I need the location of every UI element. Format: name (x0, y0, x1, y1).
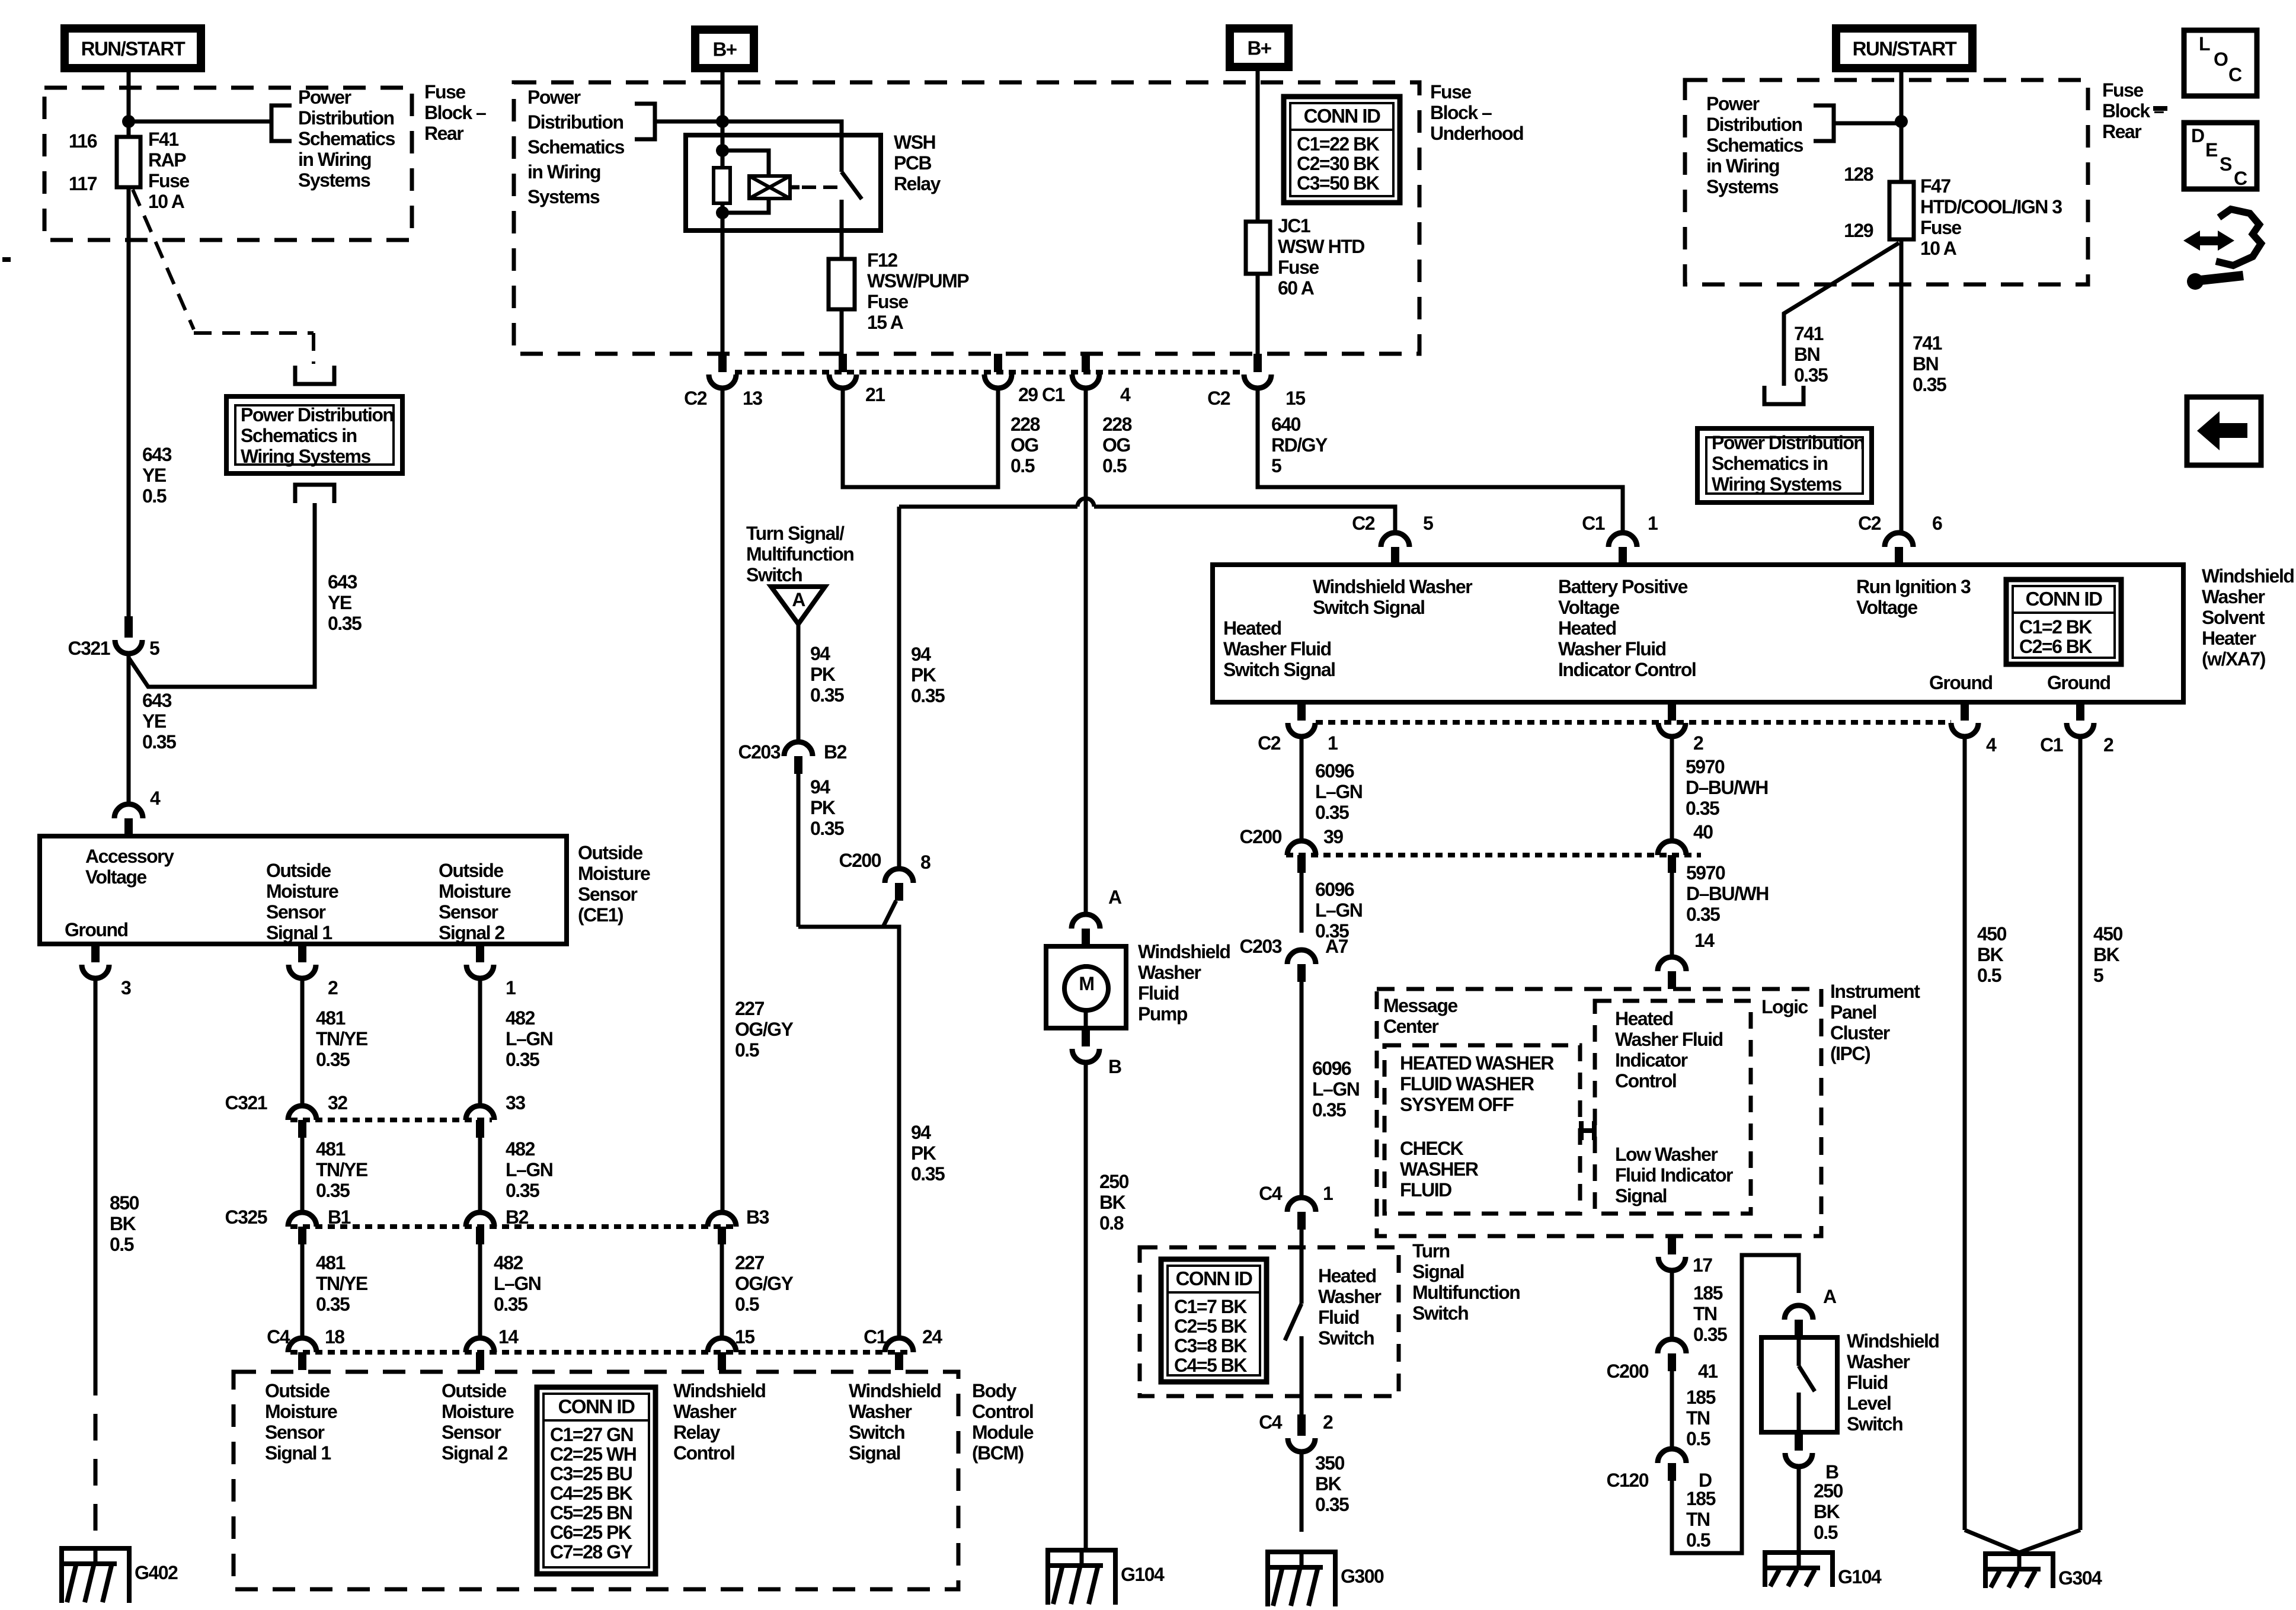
svg-text:HEATED WASHER: HEATED WASHER (1400, 1052, 1554, 1074)
wire 741 BN to heater C2-6 (1900, 239, 1904, 535)
connector pin 17 out of IPC (1668, 1236, 1676, 1254)
svg-text:WSW/PUMP: WSW/PUMP (867, 270, 969, 292)
svg-text:Signal 2: Signal 2 (439, 922, 504, 943)
svg-text:C7=28 GY: C7=28 GY (550, 1541, 632, 1563)
svg-text:Washer Fluid: Washer Fluid (1615, 1029, 1723, 1050)
fuse F41 RAP 10A (117, 137, 140, 187)
svg-text:13: 13 (743, 388, 762, 409)
box Windshield Washer Solvent Heater (1213, 565, 2183, 702)
svg-text:0.35: 0.35 (142, 731, 176, 753)
svg-text:RUN/START: RUN/START (1853, 38, 1957, 60)
svg-text:Logic: Logic (1761, 996, 1808, 1017)
svg-text:94: 94 (911, 644, 931, 665)
svg-text:Distribution: Distribution (1706, 114, 1802, 135)
connector row C200 pins 39/40 (1286, 853, 1701, 857)
svg-text:A: A (1823, 1286, 1837, 1307)
icon back arrow box (2187, 397, 2261, 465)
wire 450 BK 5 (2078, 737, 2083, 1530)
wire 227 OG/GY segment 2 (720, 1244, 724, 1337)
svg-text:18: 18 (325, 1326, 344, 1347)
svg-text:Control: Control (972, 1401, 1033, 1422)
svg-text:B+: B+ (1247, 37, 1271, 59)
svg-text:116: 116 (69, 130, 97, 152)
dashed box Fuse Block - Rear (left) (44, 88, 412, 240)
svg-text:Washer Fluid: Washer Fluid (1558, 638, 1666, 660)
svg-text:A: A (1108, 886, 1122, 908)
connector pin 2 under heater (1668, 702, 1676, 721)
svg-text:185: 185 (1686, 1387, 1716, 1408)
svg-text:0.5: 0.5 (735, 1294, 759, 1315)
svg-text:4: 4 (1986, 734, 1997, 756)
svg-text:227: 227 (735, 998, 765, 1019)
svg-text:L–GN: L–GN (494, 1273, 541, 1294)
svg-text:HTD/COOL/IGN 3: HTD/COOL/IGN 3 (1920, 196, 2062, 217)
svg-text:B+: B+ (712, 39, 736, 60)
svg-text:C1=2 BK: C1=2 BK (2019, 616, 2092, 638)
wire 640 RD/GY 5 (1258, 388, 1623, 533)
connector C2 pin 1 under heater (1297, 702, 1306, 721)
svg-text:128: 128 (1844, 164, 1873, 185)
svg-text:G402: G402 (135, 1562, 178, 1583)
ground G304 (1985, 1551, 2053, 1556)
svg-text:L–GN: L–GN (506, 1159, 552, 1180)
svg-text:Systems: Systems (1706, 176, 1779, 197)
relay switch output wire (840, 200, 844, 259)
svg-text:Moisture: Moisture (265, 1401, 337, 1422)
svg-text:0.35: 0.35 (494, 1294, 527, 1315)
reference box Power Distribution Schematics in Wiring Systems (left) (226, 396, 402, 473)
wire 94 PK from triangle (797, 624, 801, 740)
svg-text:Switch: Switch (1412, 1302, 1468, 1324)
svg-text:481: 481 (316, 1007, 346, 1029)
svg-text:G300: G300 (1341, 1566, 1384, 1587)
svg-text:741: 741 (1794, 323, 1824, 344)
connector C325 pin B2 (466, 1212, 494, 1227)
svg-text:Windshield: Windshield (2202, 565, 2294, 587)
wire 94 PK below C203 (797, 774, 801, 927)
connector pin 4 under heater (1961, 702, 1969, 721)
svg-text:0.35: 0.35 (810, 818, 844, 839)
svg-text:Signal 1: Signal 1 (265, 1442, 331, 1464)
icon wrench with double arrow (2216, 209, 2261, 265)
svg-text:Outside: Outside (265, 1380, 330, 1401)
svg-text:C1: C1 (2040, 734, 2063, 756)
svg-text:39: 39 (1323, 826, 1343, 847)
svg-text:C203: C203 (1240, 936, 1282, 957)
svg-text:C1=7 BK: C1=7 BK (1174, 1296, 1247, 1317)
wire from RUN/START into fuse block rear (127, 72, 131, 121)
wire 481 TN/YE (300, 978, 305, 1105)
svg-text:FLUID: FLUID (1400, 1179, 1451, 1201)
svg-text:Washer: Washer (1138, 962, 1201, 983)
svg-text:Underhood: Underhood (1430, 123, 1523, 144)
svg-text:Washer: Washer (1318, 1286, 1381, 1307)
svg-text:Power: Power (527, 87, 581, 108)
svg-text:2: 2 (1693, 732, 1703, 754)
svg-text:FLUID WASHER: FLUID WASHER (1400, 1073, 1534, 1094)
svg-text:(IPC): (IPC) (1830, 1043, 1870, 1064)
svg-text:Fuse: Fuse (1278, 257, 1319, 278)
wire into relay coil circuit (721, 121, 725, 168)
svg-text:Washer Fluid: Washer Fluid (1223, 638, 1331, 660)
dashed box Fuse Block - Underhood (514, 82, 1419, 354)
connector pin B level switch (1795, 1432, 1803, 1451)
connector C321 pin 32 (288, 1106, 316, 1120)
svg-text:40: 40 (1693, 821, 1713, 843)
svg-text:Accessory: Accessory (85, 846, 174, 867)
junction on RUN/START feed (122, 115, 135, 128)
svg-text:Sensor: Sensor (578, 884, 638, 905)
pigtail from C200-8 to 94 PK wire (798, 901, 896, 927)
svg-text:15: 15 (1285, 388, 1305, 409)
svg-text:0.35: 0.35 (316, 1294, 350, 1315)
svg-text:6096: 6096 (1312, 1058, 1351, 1079)
svg-text:G104: G104 (1121, 1564, 1165, 1585)
svg-text:Windshield: Windshield (1847, 1330, 1939, 1352)
svg-text:B2: B2 (506, 1206, 529, 1228)
svg-text:B3: B3 (746, 1206, 769, 1228)
svg-text:0.5: 0.5 (735, 1039, 759, 1061)
svg-text:C2=5 BK: C2=5 BK (1174, 1315, 1247, 1337)
svg-text:Sensor: Sensor (439, 901, 498, 923)
svg-text:WSW HTD: WSW HTD (1278, 236, 1364, 257)
svg-text:8: 8 (920, 852, 930, 873)
svg-text:B1: B1 (328, 1206, 351, 1228)
svg-text:Schematics: Schematics (527, 136, 625, 158)
svg-text:C321: C321 (225, 1092, 267, 1113)
svg-text:B: B (1108, 1056, 1121, 1077)
bracket power distribution ref (left fuse block) (271, 105, 292, 141)
connector C2 pin 5 into heater (1391, 547, 1399, 565)
svg-text:Switch: Switch (1318, 1327, 1374, 1349)
heated washer fluid switch contact (1300, 1280, 1304, 1304)
connector C4 pin 1 (switch) (1287, 1198, 1316, 1212)
wire from F12 to pin 21 (840, 309, 844, 372)
svg-text:Fuse: Fuse (1920, 217, 1961, 238)
motor symbol M (1064, 966, 1108, 1010)
connector row C325 pins B1/B2/B3 (290, 1224, 735, 1229)
svg-text:WSH: WSH (894, 132, 935, 153)
svg-text:C3=25 BU: C3=25 BU (550, 1463, 632, 1484)
svg-text:14: 14 (498, 1326, 519, 1347)
svg-text:Signal 1: Signal 1 (266, 922, 332, 943)
svg-text:BK: BK (2093, 944, 2120, 965)
connector C200 pin 40 (1658, 841, 1686, 855)
stray dash artifact left margin (2, 257, 11, 262)
svg-text:Outside: Outside (266, 860, 331, 881)
svg-text:Turn: Turn (1412, 1240, 1450, 1262)
svg-text:0.5: 0.5 (1977, 965, 2001, 986)
svg-text:WASHER: WASHER (1400, 1158, 1479, 1180)
svg-text:0.35: 0.35 (810, 684, 844, 706)
svg-text:227: 227 (735, 1252, 765, 1273)
svg-text:(CE1): (CE1) (578, 904, 623, 926)
svg-text:0.5: 0.5 (142, 485, 167, 507)
svg-text:OG/GY: OG/GY (735, 1019, 794, 1040)
wire 643 YE below F41 (127, 187, 131, 616)
svg-text:RUN/START: RUN/START (81, 38, 186, 60)
svg-text:0.35: 0.35 (1794, 364, 1828, 386)
svg-text:Windshield Washer: Windshield Washer (1313, 576, 1472, 597)
svg-text:0.35: 0.35 (506, 1049, 539, 1070)
svg-text:450: 450 (2093, 923, 2123, 945)
svg-text:Cluster: Cluster (1830, 1022, 1890, 1044)
svg-text:94: 94 (810, 776, 830, 798)
svg-text:32: 32 (328, 1092, 347, 1113)
svg-text:Fluid: Fluid (1138, 982, 1179, 1004)
svg-text:Wiring Systems: Wiring Systems (241, 446, 370, 467)
svg-text:Ground: Ground (2047, 672, 2110, 693)
svg-text:1: 1 (1323, 1183, 1333, 1204)
svg-text:Windshield: Windshield (1138, 941, 1230, 962)
relay switch blade (842, 172, 862, 199)
fuse F12 WSW/PUMP 15A (829, 259, 855, 309)
coil actuator lead (790, 185, 800, 190)
svg-text:Fuse: Fuse (1430, 81, 1471, 103)
svg-text:0.35: 0.35 (911, 685, 945, 706)
connector pin A washer pump (1082, 929, 1090, 946)
connector C1 pin 24 (885, 1338, 913, 1352)
svg-text:33: 33 (506, 1092, 525, 1113)
svg-text:Heater: Heater (2202, 628, 2256, 649)
svg-text:C203: C203 (738, 741, 781, 763)
wire 5970 D-BU/WH seg1 (1670, 737, 1674, 840)
svg-text:15 A: 15 A (867, 312, 904, 333)
svg-text:0.5: 0.5 (110, 1234, 134, 1255)
power feed box RUN/START (left) (65, 28, 201, 68)
wire to power distribution ref (right) (1834, 121, 1901, 126)
svg-text:C2=25 WH: C2=25 WH (550, 1443, 636, 1465)
svg-text:G304: G304 (2058, 1567, 2102, 1589)
svg-text:C4: C4 (267, 1326, 290, 1347)
svg-text:Heated: Heated (1318, 1265, 1376, 1286)
svg-text:SYSYEM OFF: SYSYEM OFF (1400, 1094, 1514, 1115)
wire to power distribution reference (left fuse block) (129, 120, 270, 124)
svg-text:643: 643 (142, 444, 172, 465)
svg-text:C200: C200 (1607, 1361, 1649, 1382)
svg-text:Signal 2: Signal 2 (442, 1442, 507, 1464)
branch wire to power distribution ref box #4 (1784, 243, 1899, 386)
svg-text:Solvent: Solvent (2202, 607, 2265, 628)
svg-text:Fluid Indicator: Fluid Indicator (1615, 1164, 1733, 1186)
svg-text:TN/YE: TN/YE (316, 1159, 368, 1180)
svg-text:6096: 6096 (1315, 760, 1354, 782)
svg-text:0.35: 0.35 (1315, 1494, 1349, 1515)
svg-text:Moisture: Moisture (578, 863, 650, 884)
svg-text:482: 482 (494, 1252, 523, 1273)
svg-text:Moisture: Moisture (266, 881, 338, 902)
svg-text:481: 481 (316, 1252, 346, 1273)
svg-text:TN: TN (1693, 1303, 1717, 1324)
svg-text:Panel: Panel (1830, 1001, 1876, 1023)
svg-text:5: 5 (2093, 965, 2103, 986)
svg-text:350: 350 (1315, 1452, 1345, 1474)
relay coil resistor (714, 168, 730, 203)
power feed box B+ (right) (1230, 28, 1288, 67)
svg-text:0.5: 0.5 (1686, 1428, 1710, 1449)
svg-text:5: 5 (149, 638, 159, 659)
svg-text:Run Ignition 3: Run Ignition 3 (1856, 576, 1971, 597)
wire 450 BK 0.5 (1963, 737, 1967, 1530)
svg-text:Block –: Block – (1430, 102, 1492, 123)
svg-text:10 A: 10 A (148, 191, 185, 212)
svg-text:Fuse: Fuse (2102, 79, 2143, 101)
box Outside Moisture Sensor (CE1) (40, 836, 567, 944)
connector C321 pin 5 (124, 616, 133, 638)
svg-text:OG: OG (1102, 434, 1130, 456)
svg-text:C325: C325 (225, 1206, 267, 1228)
svg-text:Windshield: Windshield (849, 1380, 941, 1401)
svg-text:Battery Positive: Battery Positive (1558, 576, 1688, 597)
svg-text:Level: Level (1847, 1393, 1891, 1414)
svg-text:3: 3 (121, 977, 131, 998)
svg-text:BK: BK (1977, 944, 2004, 965)
svg-text:F47: F47 (1920, 175, 1950, 197)
dashed box Turn Signal Multifunction Switch (1140, 1247, 1399, 1396)
dashed box message center display (1384, 1045, 1580, 1214)
svg-text:1: 1 (1648, 513, 1658, 534)
wire from JC1 to pin 15 (1256, 274, 1260, 372)
wire 5970 D-BU/WH seg2 (1670, 873, 1674, 939)
wire 482 L-GN (478, 978, 482, 1105)
svg-text:F41: F41 (148, 129, 178, 150)
svg-text:741: 741 (1913, 332, 1942, 354)
svg-text:Signal: Signal (849, 1442, 900, 1464)
connector pin 14 into IPC (1668, 971, 1676, 989)
svg-text:15: 15 (735, 1326, 754, 1347)
svg-text:C2=6 BK: C2=6 BK (2019, 636, 2092, 657)
svg-text:24: 24 (922, 1326, 942, 1347)
connector C203 pin B2 (784, 742, 813, 756)
svg-text:Sensor: Sensor (442, 1422, 501, 1443)
connector pin B washer pump (1082, 1028, 1090, 1046)
svg-text:Moisture: Moisture (439, 881, 511, 902)
svg-text:Indicator: Indicator (1615, 1049, 1688, 1071)
connector C203 pin A7 (1287, 950, 1316, 964)
wire 850 BK 0.5 (94, 978, 98, 1369)
svg-text:Switch: Switch (849, 1422, 904, 1443)
icon LOC box (2184, 30, 2257, 96)
level switch contact (1797, 1337, 1801, 1366)
svg-text:0.35: 0.35 (1312, 1099, 1346, 1121)
svg-text:L: L (2199, 33, 2210, 55)
svg-text:PCB: PCB (894, 152, 931, 174)
svg-text:6: 6 (1932, 513, 1942, 534)
svg-text:94: 94 (810, 643, 830, 664)
svg-text:0.35: 0.35 (1315, 802, 1349, 823)
svg-text:C200: C200 (839, 850, 881, 871)
svg-text:L–GN: L–GN (1312, 1078, 1359, 1100)
svg-text:60 A: 60 A (1278, 277, 1315, 299)
connector C200 pin 41 (1658, 1339, 1686, 1353)
svg-text:Wiring Systems: Wiring Systems (1712, 473, 1841, 495)
svg-text:Relay: Relay (673, 1422, 721, 1443)
wire to relay coil (722, 151, 769, 176)
wire 482 segment 2 (478, 1138, 482, 1211)
svg-text:29 C1: 29 C1 (1018, 384, 1065, 405)
svg-text:BK: BK (1814, 1501, 1840, 1522)
svg-text:Rear: Rear (2102, 121, 2141, 142)
svg-text:C2: C2 (1352, 513, 1375, 534)
svg-text:643: 643 (142, 690, 172, 711)
turn signal multifunction switch connector A (triangle) (771, 587, 825, 624)
svg-text:Windshield: Windshield (673, 1380, 765, 1401)
svg-text:TN/YE: TN/YE (316, 1273, 368, 1294)
wire 228 OG 0.5 to washer pump (1084, 388, 1088, 913)
svg-text:0.35: 0.35 (316, 1049, 350, 1070)
connector C2 pin 13 (718, 354, 727, 372)
svg-text:21: 21 (865, 384, 885, 405)
svg-text:4: 4 (1120, 384, 1131, 405)
wire from relay to pin 13 (721, 231, 725, 372)
wire 482 segment 3 (478, 1244, 482, 1337)
wire from B+ no.1 (721, 72, 725, 121)
connector C2 pin 15 (1253, 354, 1262, 372)
svg-text:Module: Module (972, 1422, 1034, 1443)
stray dash artifact right margin (2153, 106, 2167, 111)
box windshield washer fluid level switch (1761, 1337, 1837, 1432)
svg-text:C200: C200 (1240, 826, 1282, 847)
svg-text:C3=8 BK: C3=8 BK (1174, 1335, 1247, 1356)
power feed box RUN/START (right) (1836, 28, 1972, 68)
relay coil (box with X) (749, 176, 790, 199)
CONN ID table BCM (537, 1387, 655, 1574)
svg-text:C4=5 BK: C4=5 BK (1174, 1355, 1247, 1376)
connector pin 4 (underhood) (1082, 354, 1090, 372)
svg-text:RD/GY: RD/GY (1271, 434, 1328, 456)
svg-text:10 A: 10 A (1920, 238, 1957, 259)
svg-text:BK: BK (1315, 1473, 1342, 1494)
svg-text:250: 250 (1099, 1171, 1129, 1192)
wire 643 YE 0.35 pigtail to C321-5 (129, 503, 315, 687)
connector C1 pin 2 under heater (2076, 702, 2084, 721)
svg-text:0.35: 0.35 (1686, 904, 1720, 925)
svg-text:17: 17 (1693, 1254, 1712, 1276)
svg-text:Ground: Ground (1929, 672, 1993, 693)
svg-text:Signal: Signal (1412, 1261, 1464, 1282)
svg-text:850: 850 (110, 1192, 139, 1214)
svg-text:TN: TN (1686, 1407, 1710, 1429)
svg-text:OG/GY: OG/GY (735, 1273, 794, 1294)
svg-text:C3=50 BK: C3=50 BK (1297, 172, 1380, 194)
svg-text:JC1: JC1 (1278, 215, 1310, 236)
svg-text:Power Distribution: Power Distribution (241, 404, 393, 425)
connector pin 3 (ground) out of sensor module (91, 944, 100, 962)
svg-text:Low Washer: Low Washer (1615, 1144, 1718, 1165)
svg-text:Washer: Washer (2202, 586, 2265, 607)
svg-text:185: 185 (1686, 1488, 1716, 1509)
wire to power distribution ref (underhood) (655, 120, 722, 124)
svg-text:Body: Body (972, 1380, 1017, 1401)
svg-text:Multifunction: Multifunction (1412, 1282, 1520, 1303)
junction on RUN/START no.2 feed (1895, 115, 1908, 128)
svg-text:482: 482 (506, 1007, 535, 1029)
svg-text:Relay: Relay (894, 173, 941, 194)
svg-text:0.5: 0.5 (1011, 455, 1035, 476)
svg-text:Outside: Outside (439, 860, 503, 881)
svg-text:481: 481 (316, 1138, 346, 1160)
connector C325 pin B3 (708, 1212, 736, 1227)
svg-text:Fuse: Fuse (424, 81, 465, 103)
svg-text:0.35: 0.35 (1693, 1324, 1727, 1345)
fuse F47 HTD/COOL/IGN3 10A (1889, 182, 1914, 239)
junction coil top (716, 144, 729, 157)
svg-text:1: 1 (1328, 732, 1338, 754)
wires join to G304 (1965, 1530, 2080, 1553)
svg-text:Multifunction: Multifunction (746, 543, 853, 565)
svg-text:Pump: Pump (1138, 1003, 1188, 1025)
CONN ID table underhood (1284, 97, 1400, 203)
